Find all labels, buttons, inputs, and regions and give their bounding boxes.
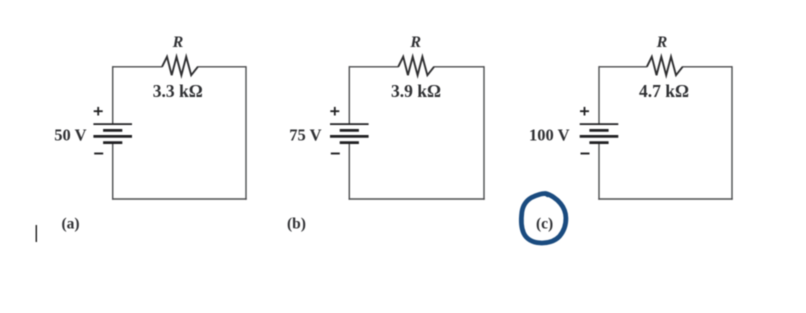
blue pen annotation circle around (c): [521, 193, 565, 242]
wire top-left segment (b): [349, 66, 398, 68]
plus sign (b): [330, 107, 339, 116]
svg-text:(a): (a): [61, 216, 79, 233]
svg-text:4.7 kΩ: 4.7 kΩ: [639, 81, 689, 101]
battery V2 plate 4 short thick (b): [340, 141, 359, 144]
wire top-right segment (c): [682, 66, 732, 68]
battery V2 plate 1 long thin (b): [330, 123, 369, 125]
battery V1 plate 1 long thin (a): [93, 123, 132, 125]
svg-text:3.9 kΩ: 3.9 kΩ: [391, 81, 441, 101]
wire left upper (c): [598, 66, 600, 124]
plus sign (c): [580, 107, 589, 116]
wire right side (a): [245, 66, 247, 200]
wire left upper (a): [112, 66, 114, 124]
svg-text:100 V: 100 V: [529, 125, 570, 144]
wire left lower (b): [348, 143, 350, 200]
wire top-right segment (a): [198, 66, 246, 68]
battery V1 plate 2 short thick (a): [103, 129, 122, 132]
wire top-right segment (b): [434, 66, 484, 68]
svg-text:3.3 kΩ: 3.3 kΩ: [153, 81, 203, 101]
svg-text:R: R: [656, 34, 668, 51]
wire right side (b): [483, 66, 485, 200]
plus sign (a): [94, 107, 103, 116]
svg-text:R: R: [409, 34, 421, 51]
resistor R zigzag (a): [162, 57, 198, 75]
wire right side (c): [731, 66, 733, 200]
battery V2 plate 3 long thick (b): [330, 135, 369, 138]
resistor R zigzag (b): [398, 57, 434, 75]
wire left lower (c): [598, 143, 600, 200]
wire top-left segment (a): [113, 66, 163, 68]
svg-text:50 V: 50 V: [54, 125, 86, 144]
battery V1 plate 3 long thick (a): [93, 135, 132, 138]
wire left upper (b): [348, 66, 350, 124]
battery V2 plate 2 short thick (b): [340, 129, 359, 132]
minus sign (c): [581, 153, 590, 155]
svg-text:(c): (c): [536, 216, 553, 233]
battery V3 plate 2 short thick (c): [589, 129, 608, 132]
wire bottom (c): [598, 198, 732, 200]
battery V3 plate 4 short thick (c): [589, 141, 608, 144]
text cursor bar: [35, 225, 37, 242]
svg-text:(b): (b): [287, 216, 306, 233]
wire left lower (a): [112, 143, 114, 200]
battery V3 plate 3 long thick (c): [580, 135, 619, 138]
wire top-left segment (c): [599, 66, 647, 68]
resistor R zigzag (c): [647, 57, 683, 75]
minus sign (b): [331, 153, 340, 155]
minus sign (a): [94, 153, 103, 155]
wire bottom (b): [349, 198, 485, 200]
svg-text:R: R: [172, 34, 184, 51]
battery V3 plate 1 long thin (c): [580, 123, 619, 125]
battery V1 plate 4 short thick (a): [103, 141, 122, 144]
wire bottom (a): [112, 198, 247, 200]
svg-text:75 V: 75 V: [289, 125, 321, 144]
